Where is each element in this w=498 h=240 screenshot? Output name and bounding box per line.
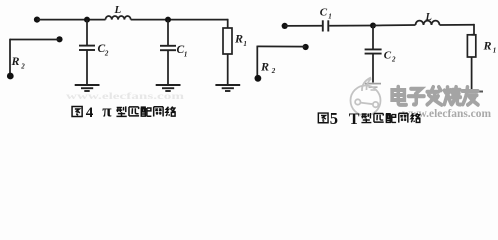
svg-text:1: 1: [328, 12, 332, 20]
ground under C2 (right circuit, faded): [365, 84, 381, 90]
wire: C2 bottom plate to ground: [86, 50, 88, 84]
wire: rail from C1 right plate to C2 junction: [329, 25, 373, 27]
svg-text:1: 1: [493, 46, 497, 54]
glyph you: [462, 87, 478, 105]
inductor L (right circuit, 3 humps): [416, 21, 440, 25]
svg-text:R: R: [483, 39, 492, 53]
label R1: [234, 32, 247, 48]
label C2: [98, 43, 109, 58]
ground under C2: [75, 85, 100, 91]
svg-text:www.elecfans.com: www.elecfans.com: [402, 106, 491, 120]
svg-text:2: 2: [20, 62, 25, 70]
node: junction of C2 on top rail: [84, 17, 90, 23]
svg-text:C: C: [320, 6, 328, 18]
glyph zi: [409, 89, 424, 105]
glyph xing (fig5): [361, 113, 371, 123]
capacitor C1 (series): [323, 20, 329, 31]
svg-text:π: π: [102, 102, 112, 121]
watermark logo circle: [351, 78, 381, 116]
wire: source stub vertical (R2 lead): [9, 39, 11, 75]
svg-text:L: L: [114, 4, 122, 16]
glyph wang (fig5): [399, 113, 408, 122]
ground under C1: [156, 85, 181, 91]
node: source bottom terminal (right circuit): [255, 75, 262, 82]
wire: C1 vertical from rail to top plate: [167, 20, 169, 46]
wire: R1 bottom to ground (right circuit): [471, 57, 473, 91]
node: junction of C1 on top rail: [165, 17, 171, 23]
capacitor C1: [160, 46, 176, 50]
ground under R1: [215, 85, 240, 91]
wire: R1 bottom to ground: [227, 54, 229, 84]
wire: top rail corner down to resistor R1: [227, 19, 229, 28]
wire: rail from junction to inductor: [373, 24, 416, 27]
label R2 (right circuit): [260, 59, 276, 75]
wire: top rail from input dot to inductor: [37, 19, 106, 21]
wire: rail from input dot to C1 left plate: [285, 25, 322, 27]
label R2: [11, 54, 26, 70]
svg-text:4: 4: [86, 105, 94, 121]
svg-text:www.elecfans.com: www.elecfans.com: [66, 91, 185, 101]
node: right circuit source stub dot: [303, 44, 309, 50]
label C1 (right circuit): [320, 6, 332, 20]
label C2 (right circuit): [384, 50, 396, 64]
svg-text:2: 2: [271, 67, 276, 75]
glyph tu (fig5): [318, 113, 328, 123]
caption figure 5: [318, 109, 420, 128]
wire: rail from inductor to right corner: [440, 24, 475, 26]
wire: corner down to R1 (right circuit): [472, 24, 475, 35]
resistor R1 (box): [223, 28, 232, 54]
glyph pei (fig5): [386, 114, 396, 123]
node: source bottom terminal: [7, 73, 14, 80]
glyph dian: [392, 87, 406, 105]
svg-text:T: T: [349, 111, 360, 128]
wire: C2 vertical from rail to top plate: [86, 20, 88, 46]
node: right circuit input terminal: [282, 23, 288, 29]
watermark text: dian zi fa shao you: [392, 87, 478, 105]
ground under R1 (right circuit, partly faded): [462, 92, 483, 95]
glyph xing: [116, 106, 126, 116]
wire: C2 vertical from junction to plate (right circuit): [372, 26, 374, 50]
label C1: [177, 44, 188, 59]
svg-text:5: 5: [330, 109, 338, 128]
caption figure 4: [72, 102, 176, 121]
svg-text:1: 1: [243, 40, 247, 48]
node: junction of C2 (right circuit): [370, 23, 376, 29]
inductor L (4 humps): [106, 16, 131, 20]
glyph luo: [166, 107, 176, 117]
svg-text:R: R: [234, 32, 243, 46]
svg-text:R: R: [11, 54, 20, 68]
svg-text:R: R: [260, 59, 269, 73]
glyph pi: [129, 107, 139, 116]
label R1 (right circuit): [483, 39, 497, 55]
glyph tu (fig4): [72, 106, 82, 116]
node: left source terminal (stub dot): [56, 36, 62, 42]
svg-text:L: L: [425, 12, 432, 23]
svg-text:2: 2: [104, 50, 109, 58]
glyph pei: [141, 107, 152, 116]
wire: C1 bottom plate to ground: [167, 50, 169, 84]
capacitor C2: [79, 46, 95, 50]
glyph wang: [154, 107, 163, 117]
wire: C2 bottom to ground (right circuit): [372, 54, 374, 83]
svg-text:1: 1: [184, 51, 188, 59]
glyph pi (fig5): [374, 113, 384, 122]
node: left input terminal (top): [34, 17, 40, 23]
wire: source stub vertical R2 lead (right circuit): [256, 46, 258, 76]
wire: source stub horizontal (right circuit): [257, 45, 305, 47]
glyph luo (fig5): [411, 113, 420, 122]
capacitor C2 (right circuit): [365, 49, 382, 53]
glyph fa: [427, 87, 441, 105]
wire: top rail from inductor to right corner: [131, 19, 228, 21]
glyph shao: [444, 87, 460, 105]
svg-text:C: C: [384, 50, 392, 62]
wire: source stub horizontal: [10, 39, 60, 41]
svg-text:2: 2: [391, 56, 396, 64]
resistor R1 (right circuit box): [467, 35, 475, 57]
